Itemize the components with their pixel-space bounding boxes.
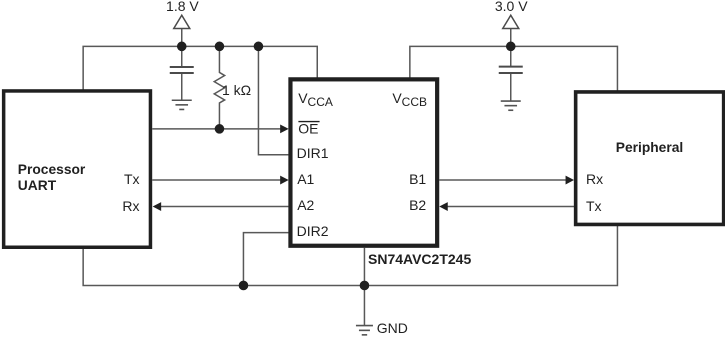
svg-text:OE: OE <box>298 121 318 137</box>
svg-text:Tx: Tx <box>124 171 140 187</box>
svg-text:GND: GND <box>377 320 408 336</box>
svg-text:1 kΩ: 1 kΩ <box>222 82 251 98</box>
svg-text:DIR1: DIR1 <box>297 145 329 161</box>
svg-text:UART: UART <box>18 178 57 193</box>
svg-text:Rx: Rx <box>586 171 603 187</box>
svg-text:A2: A2 <box>297 197 314 213</box>
svg-text:1.8 V: 1.8 V <box>166 0 199 14</box>
svg-text:Processor: Processor <box>18 162 86 177</box>
svg-text:B1: B1 <box>409 171 426 187</box>
svg-text:Peripheral: Peripheral <box>616 140 683 155</box>
svg-text:3.0 V: 3.0 V <box>495 0 528 14</box>
svg-text:DIR2: DIR2 <box>297 223 329 239</box>
svg-text:SN74AVC2T245: SN74AVC2T245 <box>368 251 471 267</box>
svg-text:A1: A1 <box>297 171 314 187</box>
svg-text:Tx: Tx <box>586 198 602 214</box>
svg-text:B2: B2 <box>409 197 426 213</box>
svg-text:Rx: Rx <box>122 198 139 214</box>
